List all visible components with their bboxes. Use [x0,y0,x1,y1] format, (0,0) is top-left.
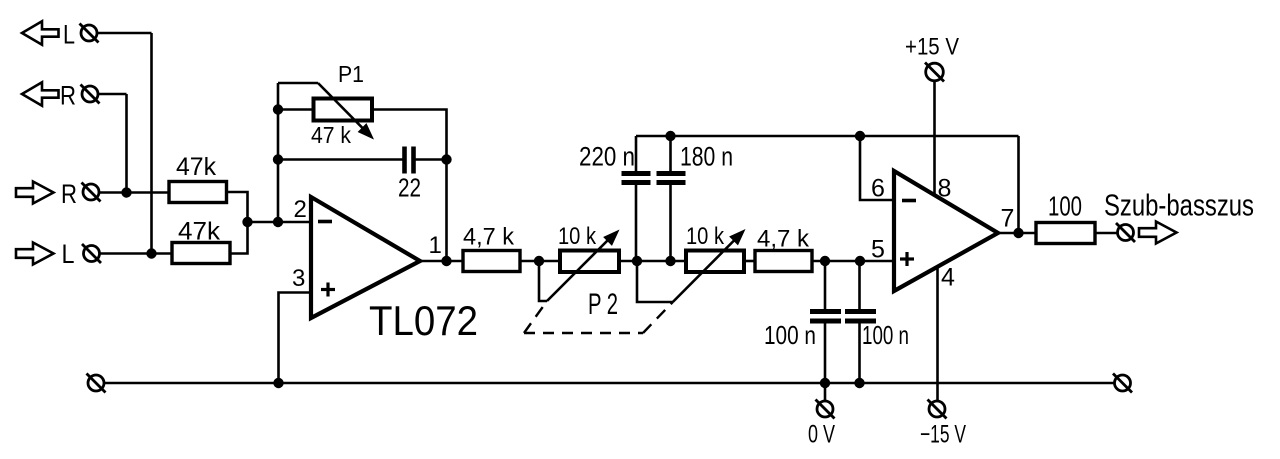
svg-text:47 k: 47 k [311,122,351,148]
node top line C3 [665,131,675,141]
label L output [63,20,75,50]
node top line pin6 [855,131,865,141]
wire pin6 drop [860,136,894,200]
node P1 left lead [273,104,283,114]
svg-text:100 n: 100 n [764,320,816,350]
capacitor C2 plates [622,174,651,183]
svg-text:220 n: 220 n [579,142,635,172]
terminal L input [82,244,101,263]
label P1 [338,61,364,87]
wire ground rail [104,382,1115,385]
wire L input to resistor [100,252,173,255]
svg-text:180 n: 180 n [680,142,733,172]
capacitor C4 plates [810,312,841,322]
svg-text:5: 5 [871,236,885,264]
svg-text:10 k: 10 k [686,223,725,250]
potentiometer P1 body [314,99,373,121]
label P2b 10k [686,223,725,250]
capacitor C1 22 left lead [278,158,403,161]
svg-text:10 k: 10 k [558,223,597,250]
P2b wiper arrow [673,230,745,302]
resistor R4 4,7k [755,251,812,272]
wire R4 to op2 pin5 [812,260,894,263]
capacitor C1 22 plates [405,147,414,174]
wire P2b to R4 [744,260,755,263]
capacitor C5 100n branch upper [858,261,861,309]
pin 1 label [429,232,442,259]
label P2 [588,288,618,321]
label P1 value 47k [311,122,351,148]
label R4 4,7k [757,226,810,253]
wire P2a to P2b [619,260,686,263]
potentiometer P2b body [686,251,744,273]
wire pin2 [248,221,312,224]
svg-text:L: L [62,239,75,269]
label R5 100 [1048,191,1082,222]
wire R5 to output terminal [1095,232,1117,235]
resistor R1 47k label [176,153,216,181]
svg-text:R: R [60,81,76,111]
label C2 220n [579,142,635,172]
node op2 output feedback [1013,228,1023,238]
label R output [60,81,76,111]
node C3 bottom [665,256,675,266]
wire +15V to pin8 [933,80,936,196]
potentiometer P2a body [560,251,619,273]
capacitor C4 100n branch upper [824,261,827,309]
terminal +15V [925,63,944,82]
node feedback left [273,217,283,227]
label -15V [920,421,966,449]
node C2 bottom [632,256,642,266]
input arrow R [16,182,54,204]
terminal ground right [1113,374,1132,393]
node R input junction [121,187,131,197]
node C1 right [441,154,451,164]
svg-text:8: 8 [938,175,952,203]
svg-text:Szub-basszus: Szub-basszus [1104,188,1254,223]
capacitor C5 branch lower [858,324,861,384]
capacitor C3 plates [657,174,686,183]
label Szub-basszus [1104,188,1254,223]
capacitor C5 plates [845,312,876,322]
svg-text:−15 V: −15 V [920,421,966,449]
wire L output horizontal [97,32,152,35]
svg-text:2: 2 [294,196,307,223]
terminal -15V [928,400,947,419]
pin 4 label [941,264,955,292]
wire R1 to corner [227,192,248,222]
wire top feedback line [636,135,1019,138]
input arrow L [16,243,54,265]
pin 2 label [294,196,307,223]
wire R output horizontal [98,93,127,96]
capacitor C2 branch lower [635,185,638,261]
node C5 top [855,256,865,266]
label C3 180n [680,142,733,172]
terminal 0V [816,400,835,419]
pin 6 label [871,175,885,203]
label R3 4,7k [463,224,515,251]
svg-text:4,7 k: 4,7 k [757,226,810,253]
output arrow Szub-basszus [1139,222,1177,244]
wire R3 to P2a [520,260,560,263]
pin 3 label [292,265,305,292]
node ground C5 [854,378,864,388]
op-amp U1A minus sign [318,220,332,224]
op-amp U1A triangle [311,197,420,318]
P1 right lead wire [372,110,447,262]
output arrow R [22,82,59,105]
wire R2 to corner [230,222,248,254]
capacitor C1 right lead [416,158,447,161]
svg-text:1: 1 [429,232,442,259]
svg-text:4,7 k: 4,7 k [463,224,515,251]
svg-text:4: 4 [941,264,955,292]
capacitor C2 220n branch upper [635,136,638,171]
wire feedback left rail [277,83,280,222]
terminal L output [80,24,99,43]
wire 0V stub [824,383,827,401]
svg-text:22: 22 [398,173,421,203]
terminal R input [82,183,101,202]
capacitor C3 180n branch upper [669,136,672,171]
terminal R output [81,85,100,104]
op-amp U1B minus sign [902,199,916,203]
resistor R5 100 [1036,223,1095,244]
node summing junction [242,217,252,227]
wire pin4 to -15V [936,267,939,402]
resistor R2 47k [172,243,230,264]
svg-text:P1: P1 [338,61,364,87]
label TL072 [369,297,478,344]
svg-text:L: L [63,20,75,50]
label C4 100n [764,320,816,350]
P1 wiper wire and arrow [278,83,373,139]
resistor R1 47k [169,182,227,203]
node C1 left lead [273,154,283,164]
P1 left lead wire [278,108,314,111]
svg-text:6: 6 [871,175,885,203]
svg-text:3: 3 [292,265,305,292]
wire L output vertical drop [150,33,153,254]
op-amp U1B plus sign [900,252,914,266]
label C5 100n [862,320,909,350]
resistor R2 47k label [178,218,221,246]
svg-text:100: 100 [1048,191,1082,222]
wire pin3 to ground [279,293,312,384]
label P2a 10k [558,223,597,250]
label L input [62,239,75,269]
node ground C4 [820,378,830,388]
label 0V [808,421,835,449]
wire feedback2 rail [1017,136,1020,233]
wire R input to resistor [99,191,169,194]
P2a wiper tie wire [539,261,547,301]
op-amp U1B triangle [894,171,998,291]
ganged outline dashed [524,301,673,333]
pin 5 label [871,236,885,264]
node ground pin3 [273,378,283,388]
P2b wiper tie wire [637,261,673,302]
terminal ground left [87,374,106,393]
wire R output vertical drop [125,94,128,193]
P2a wiper arrow [547,231,619,302]
capacitor C3 branch lower [669,185,672,261]
svg-text:0 V: 0 V [808,421,835,449]
pin 7 label [1001,205,1015,233]
node L input junction [146,248,156,258]
node op1 output feedback [441,256,451,266]
wire op2 output [998,232,1036,235]
wire op1 output [420,260,463,263]
capacitor C4 branch lower [824,324,827,384]
node wiper tie 1 [534,256,544,266]
label R input [61,179,77,209]
svg-text:P 2: P 2 [588,288,618,321]
label +15V [905,34,959,61]
terminal output [1116,223,1135,242]
output arrow L (top left) [22,21,59,44]
op-amp U1A plus sign [321,283,335,297]
svg-text:+15 V: +15 V [905,34,959,61]
svg-text:47k: 47k [176,153,216,181]
svg-text:7: 7 [1001,205,1015,233]
label C1 value 22 [398,173,421,203]
svg-text:100 n: 100 n [862,320,909,350]
resistor R3 4,7k [463,251,520,272]
pin 8 label [938,175,952,203]
node C4 top [820,256,830,266]
svg-text:R: R [61,179,77,209]
svg-text:TL072: TL072 [369,297,478,344]
